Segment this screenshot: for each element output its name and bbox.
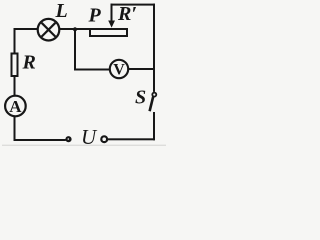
terminal left (65, 136, 71, 142)
svg-text:A: A (9, 97, 22, 116)
svg-text:V: V (113, 62, 125, 79)
wire bottom left horizontal (14, 139, 66, 141)
svg-text:S: S (135, 87, 146, 109)
svg-text:P: P (88, 4, 102, 26)
wire voltmeter branch horizontal right (128, 68, 155, 70)
wire bottom right horizontal (107, 138, 156, 140)
svg-text:U: U (81, 125, 98, 147)
wire right vertical upper (153, 4, 155, 92)
terminal right (101, 136, 107, 142)
voltmeter V (110, 60, 128, 78)
resistor R (12, 54, 18, 77)
switch S blade (150, 97, 154, 112)
potentiometer body R' (90, 29, 127, 36)
svg-text:R: R (22, 52, 36, 74)
junction node (voltmeter tap) (73, 27, 77, 31)
scan shadow bottom edge (2, 145, 166, 146)
wire lamp to potentiometer (59, 28, 90, 30)
wire top-left horizontal (14, 28, 38, 30)
wire ammeter to bottom (14, 116, 16, 141)
switch S pivot (152, 93, 156, 97)
wire voltmeter branch vertical (74, 29, 76, 71)
wire voltmeter branch horizontal left (74, 69, 110, 71)
svg-text:L: L (55, 0, 68, 22)
wire wiper top horizontal (111, 4, 156, 6)
paper background (0, 0, 168, 147)
potentiometer wiper arrow P (108, 4, 115, 28)
wire left vertical rail (14, 28, 16, 54)
lamp L (38, 19, 60, 41)
wire resistor to ammeter (14, 77, 16, 96)
wire right vertical lower (switch to bottom corner) (153, 112, 155, 140)
ammeter A (5, 96, 26, 117)
svg-text:R′: R′ (117, 3, 137, 25)
